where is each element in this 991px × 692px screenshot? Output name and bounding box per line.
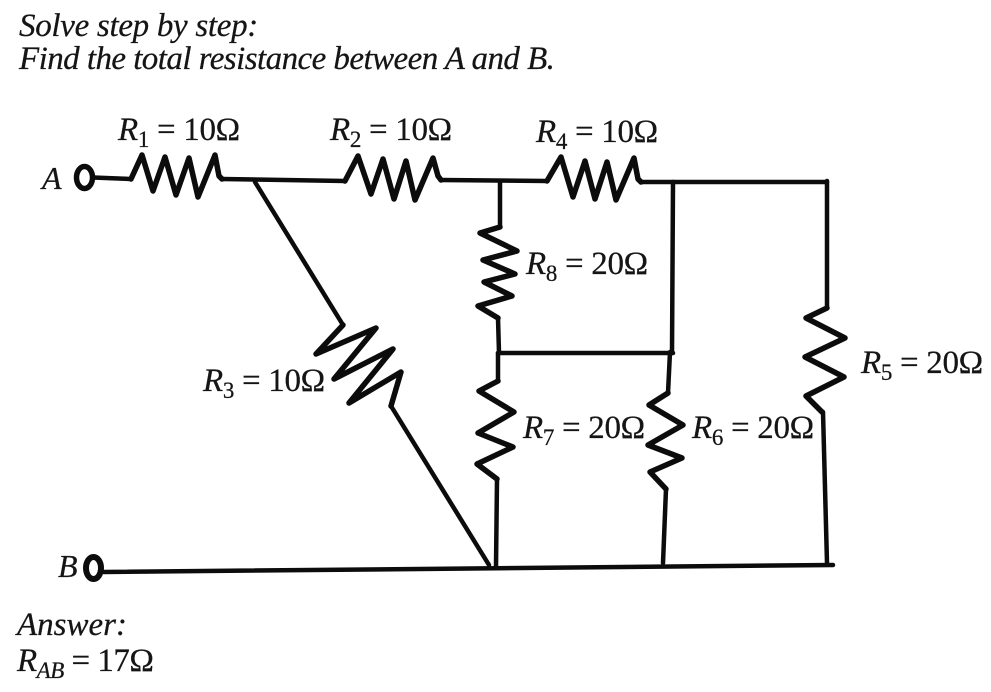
wire: bottom bus B to R5 <box>104 565 833 572</box>
svg-text:R6 = 20Ω: R6 = 20Ω <box>691 410 814 450</box>
wire: R2 to R4 through R8 junction <box>441 180 547 181</box>
wire: A to R1 <box>93 178 131 180</box>
svg-text:Find the total resistance betw: Find the total resistance between A and … <box>18 41 554 77</box>
svg-text:R8 = 20Ω: R8 = 20Ω <box>525 246 648 286</box>
wire: right side of R8 box <box>672 182 673 353</box>
wire: R6 top lead <box>668 352 670 393</box>
wire: R1 to R2 through node junction <box>222 179 345 181</box>
svg-text:Answer:: Answer: <box>15 607 127 643</box>
resistor R2 <box>345 156 441 200</box>
svg-text:R5 = 20Ω: R5 = 20Ω <box>860 345 983 385</box>
resistor R1 <box>131 155 222 197</box>
wire: R4 to top-right corner <box>641 180 827 185</box>
wire: R7 bottom lead <box>496 479 497 566</box>
wire: R5 bottom lead <box>823 412 827 563</box>
svg-text:R2 = 10Ω: R2 = 10Ω <box>329 112 452 152</box>
resistor R8 <box>478 227 517 318</box>
svg-text:R3 = 10Ω: R3 = 10Ω <box>202 363 325 403</box>
resistor R6 <box>648 393 683 489</box>
wire: right branch down to R5 <box>825 181 830 308</box>
node B terminal <box>86 557 101 579</box>
resistor R7 <box>477 381 514 479</box>
svg-text:Solve step by step:: Solve step by step: <box>19 8 258 44</box>
wire: R8 bottom lead <box>498 318 499 353</box>
wire: R3 lower diagonal <box>391 406 489 565</box>
svg-text:B: B <box>58 548 78 584</box>
node A terminal <box>77 167 93 189</box>
wire: middle horizontal bus <box>498 351 673 356</box>
svg-text:R1 = 10Ω: R1 = 10Ω <box>117 112 240 152</box>
wire: R7 top lead <box>496 353 501 381</box>
resistor R5 <box>805 308 845 412</box>
wire: R6 bottom lead <box>663 489 666 563</box>
svg-text:A: A <box>40 160 62 196</box>
wire: R3 upper diagonal <box>255 182 343 325</box>
svg-text:R7 = 20Ω: R7 = 20Ω <box>522 410 645 450</box>
resistor R3 <box>316 325 401 406</box>
svg-text:R4 = 10Ω: R4 = 10Ω <box>535 114 658 154</box>
svg-text:RAB = 17Ω: RAB = 17Ω <box>16 643 153 683</box>
wire: R8 top lead <box>498 181 503 227</box>
resistor R4 <box>547 157 641 200</box>
